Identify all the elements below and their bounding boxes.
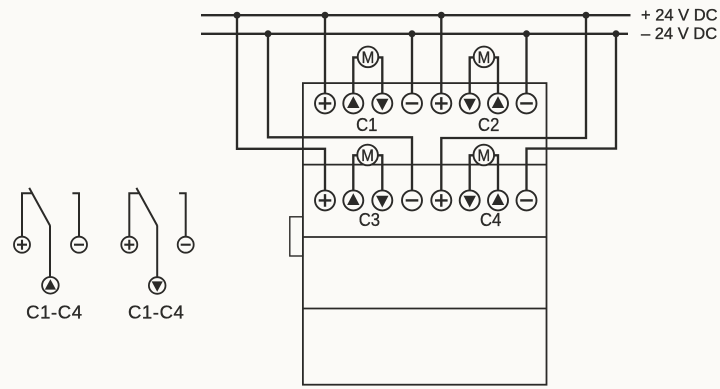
terminal - (C4) <box>517 190 537 210</box>
wire +24V to C1 plus terminal <box>324 15 326 93</box>
terminal + (C2) <box>431 93 451 113</box>
switch S2 contact wire <box>129 193 140 237</box>
module divider lower <box>303 308 547 310</box>
junction dot rail1 x325 <box>322 12 329 19</box>
junction dot rail2 x526 <box>523 30 530 37</box>
terminal + (C1) <box>315 93 335 113</box>
switch S1 common wire <box>49 225 51 277</box>
svg-text:M: M <box>477 147 490 165</box>
junction dot rail1 x441 <box>438 12 445 19</box>
wire +24V to C2 plus terminal <box>440 15 442 93</box>
terminal up-arrow (C3) <box>343 190 363 210</box>
wire -24V to C2 minus terminal <box>525 34 527 93</box>
switch S2 blade <box>136 188 157 226</box>
svg-text:M: M <box>478 49 491 67</box>
terminal up-arrow (C2) <box>488 93 508 113</box>
switch S2 terminal + <box>121 237 137 253</box>
switch S1 terminal + <box>14 237 30 253</box>
wire -24V to C1 minus terminal <box>411 34 413 93</box>
DIN clip tab <box>290 217 303 256</box>
terminal - (C1) <box>402 93 422 113</box>
motor M (C4) <box>470 145 498 191</box>
switch S2 terminal - <box>178 237 194 253</box>
terminal + (C4) <box>431 190 451 210</box>
switch S1 minus wire <box>72 193 79 237</box>
module divider middle <box>303 236 547 238</box>
wire +24V to C3 plus terminal <box>237 15 325 190</box>
terminal - (C2) <box>517 93 537 113</box>
terminal down-arrow (C2) <box>460 93 480 113</box>
junction dot rail1 x237 <box>234 12 241 19</box>
svg-text:M: M <box>362 49 375 67</box>
+24V rail <box>201 14 631 16</box>
svg-text:+ 24 V DC: + 24 V DC <box>641 6 718 24</box>
wire -24V to C4 minus terminal <box>527 34 617 191</box>
motor M (C2) <box>470 47 498 94</box>
switch S1 terminal up-arrow <box>42 277 59 294</box>
terminal up-arrow (C1) <box>343 93 363 113</box>
svg-text:C1: C1 <box>356 114 377 135</box>
motor M (C3) <box>353 145 382 191</box>
terminal up-arrow (C4) <box>488 190 508 210</box>
switch S2 terminal down-arrow <box>149 277 166 294</box>
switch S1 terminal - <box>71 237 87 253</box>
switch S1 blade <box>29 188 50 226</box>
svg-text:C2: C2 <box>478 114 499 135</box>
wire -24V to C3 minus terminal <box>268 34 412 191</box>
module divider C3/C4 section top <box>303 164 547 166</box>
terminal down-arrow (C1) <box>372 93 392 113</box>
svg-text:C4: C4 <box>480 209 501 230</box>
module outline box <box>303 83 547 385</box>
terminal down-arrow (C4) <box>460 190 480 210</box>
switch S1 contact wire <box>22 193 33 237</box>
svg-text:M: M <box>361 147 374 165</box>
terminal + (C3) <box>315 190 335 210</box>
motor M (C1) <box>353 47 382 94</box>
junction dot rail1 x586 <box>583 12 590 19</box>
wire +24V to C4 plus terminal <box>441 15 586 190</box>
svg-text:C1-C4: C1-C4 <box>26 301 82 322</box>
switch S2 minus wire <box>179 193 186 237</box>
junction dot rail2 x412 <box>409 30 416 37</box>
svg-text:C3: C3 <box>359 209 380 230</box>
svg-text:– 24 V DC: – 24 V DC <box>641 25 717 43</box>
switch S2 common wire <box>156 225 158 277</box>
terminal down-arrow (C3) <box>372 190 392 210</box>
junction dot rail2 x616 <box>613 30 620 37</box>
-24V rail <box>201 33 628 35</box>
junction dot rail2 x268 <box>265 30 272 37</box>
svg-text:C1-C4: C1-C4 <box>128 301 184 322</box>
terminal - (C3) <box>402 190 422 210</box>
